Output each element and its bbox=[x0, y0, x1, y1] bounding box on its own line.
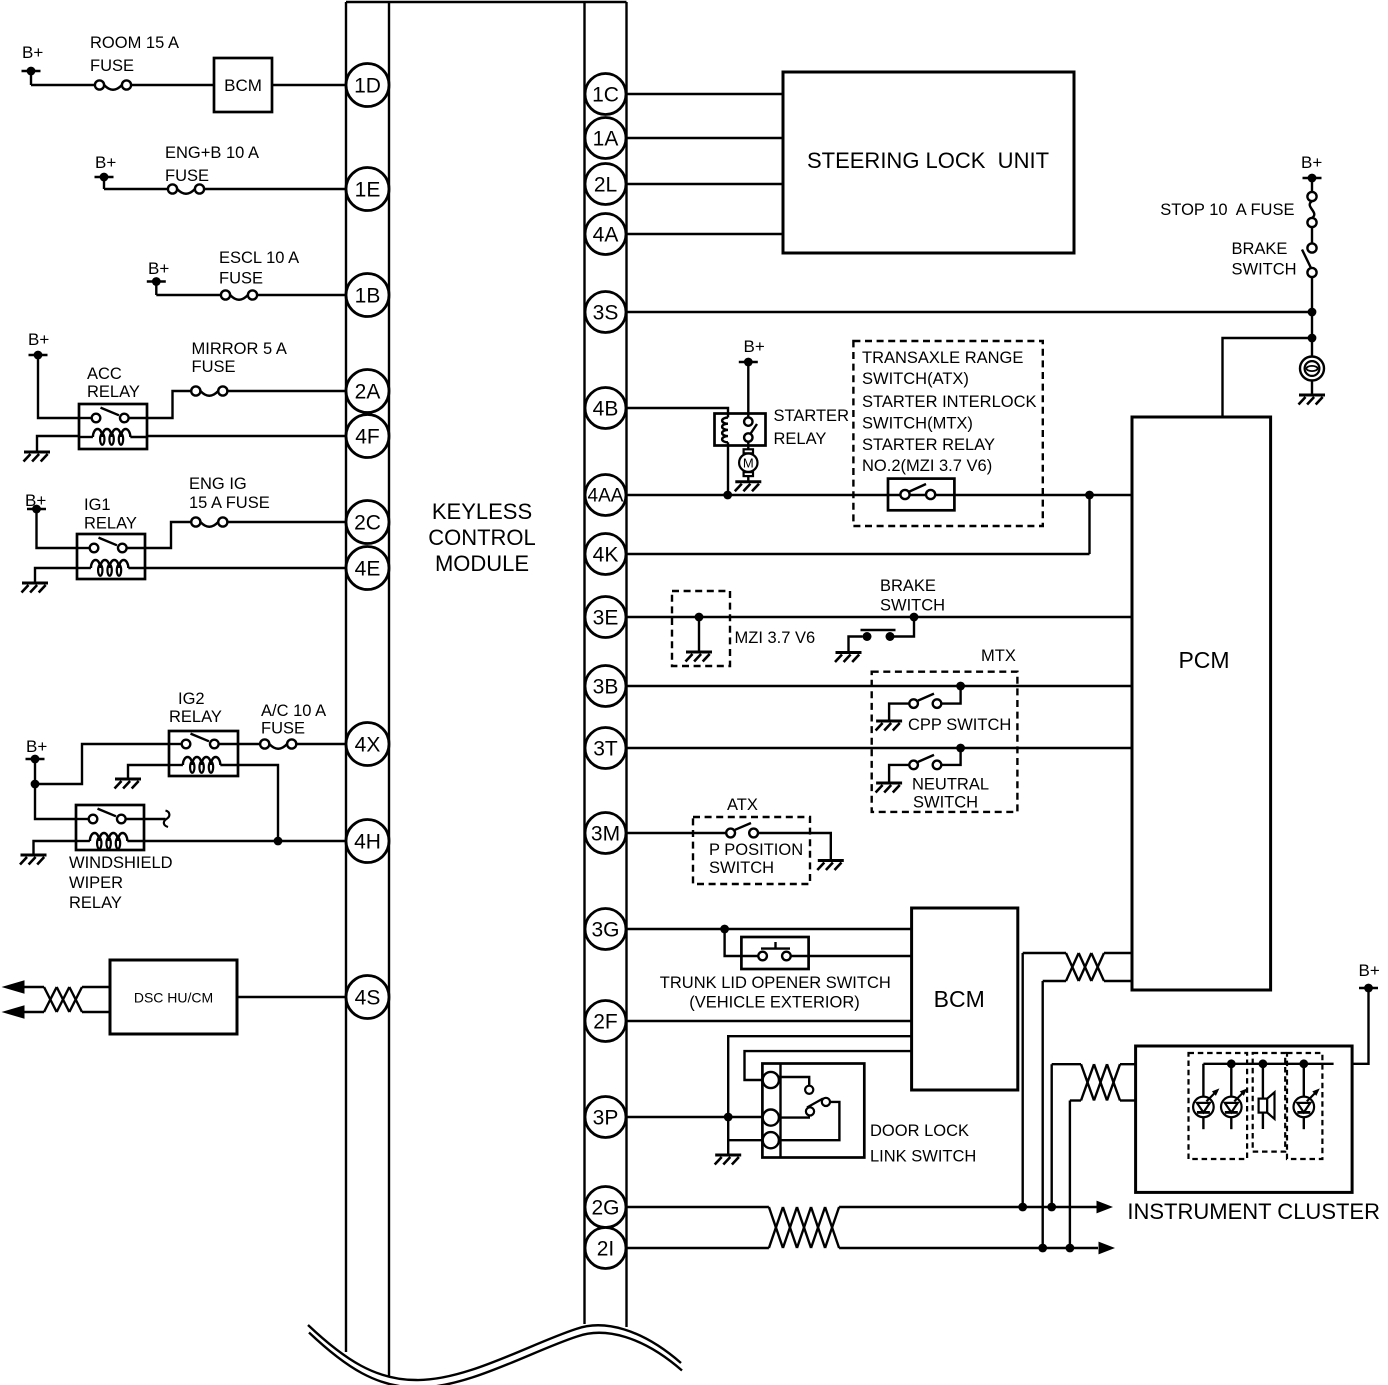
svg-text:SWITCH: SWITCH bbox=[709, 859, 774, 877]
svg-text:2L: 2L bbox=[594, 174, 617, 197]
svg-text:TRUNK LID OPENER SWITCH: TRUNK LID OPENER SWITCH bbox=[660, 974, 891, 992]
svg-text:MODULE: MODULE bbox=[435, 551, 529, 576]
svg-text:ESCL 10 A: ESCL 10 A bbox=[219, 249, 299, 267]
svg-text:SWITCH: SWITCH bbox=[1232, 261, 1297, 279]
svg-text:STARTER RELAY: STARTER RELAY bbox=[862, 436, 995, 454]
svg-text:LINK SWITCH: LINK SWITCH bbox=[870, 1148, 976, 1166]
svg-text:SWITCH(MTX): SWITCH(MTX) bbox=[862, 415, 973, 433]
svg-text:B+: B+ bbox=[22, 43, 43, 62]
svg-text:3M: 3M bbox=[591, 823, 620, 846]
svg-text:B+: B+ bbox=[1301, 153, 1322, 172]
svg-text:4B: 4B bbox=[593, 398, 619, 421]
svg-text:15 A FUSE: 15 A FUSE bbox=[189, 494, 270, 512]
svg-text:3S: 3S bbox=[593, 302, 619, 325]
svg-text:SWITCH: SWITCH bbox=[880, 597, 945, 615]
svg-text:NO.2(MZI 3.7 V6): NO.2(MZI 3.7 V6) bbox=[862, 457, 992, 475]
svg-text:FUSE: FUSE bbox=[219, 270, 263, 288]
svg-text:2I: 2I bbox=[597, 1238, 615, 1261]
svg-text:2F: 2F bbox=[593, 1011, 618, 1034]
svg-text:RELAY: RELAY bbox=[87, 383, 140, 401]
svg-text:B+: B+ bbox=[744, 337, 765, 356]
svg-text:B+: B+ bbox=[25, 491, 46, 510]
svg-text:1A: 1A bbox=[593, 128, 619, 151]
svg-text:A/C 10 A: A/C 10 A bbox=[261, 702, 326, 720]
svg-text:4AA: 4AA bbox=[588, 486, 624, 507]
svg-text:SWITCH: SWITCH bbox=[913, 794, 978, 812]
svg-text:RELAY: RELAY bbox=[774, 430, 827, 448]
svg-text:BRAKE: BRAKE bbox=[1232, 240, 1288, 258]
svg-text:B+: B+ bbox=[95, 153, 116, 172]
svg-text:B+: B+ bbox=[28, 330, 49, 349]
svg-text:M: M bbox=[743, 456, 754, 471]
svg-text:KEYLESS: KEYLESS bbox=[432, 499, 532, 524]
svg-text:RELAY: RELAY bbox=[84, 515, 137, 533]
svg-text:ENG IG: ENG IG bbox=[189, 475, 247, 493]
svg-text:1C: 1C bbox=[592, 84, 619, 107]
svg-text:FUSE: FUSE bbox=[90, 57, 134, 75]
svg-text:CONTROL: CONTROL bbox=[428, 525, 536, 550]
svg-text:PCM: PCM bbox=[1178, 647, 1229, 673]
svg-text:4F: 4F bbox=[355, 426, 380, 449]
svg-text:4A: 4A bbox=[593, 224, 619, 247]
svg-text:(VEHICLE EXTERIOR): (VEHICLE EXTERIOR) bbox=[689, 994, 860, 1012]
svg-text:STEERING LOCK UNIT: STEERING LOCK UNIT bbox=[807, 148, 1049, 173]
svg-text:RELAY: RELAY bbox=[69, 894, 122, 912]
svg-text:FUSE: FUSE bbox=[261, 720, 305, 738]
svg-text:RELAY: RELAY bbox=[169, 708, 222, 726]
svg-text:BCM: BCM bbox=[224, 76, 262, 95]
svg-text:1B: 1B bbox=[355, 285, 381, 308]
svg-text:TRANSAXLE RANGE: TRANSAXLE RANGE bbox=[862, 349, 1023, 367]
svg-text:DOOR LOCK: DOOR LOCK bbox=[870, 1122, 969, 1140]
svg-text:4X: 4X bbox=[355, 734, 381, 757]
svg-text:3B: 3B bbox=[593, 676, 619, 699]
svg-text:2G: 2G bbox=[591, 1197, 619, 1220]
svg-text:BCM: BCM bbox=[934, 986, 985, 1012]
svg-text:3P: 3P bbox=[593, 1107, 619, 1130]
svg-text:STARTER INTERLOCK: STARTER INTERLOCK bbox=[862, 393, 1037, 411]
svg-text:BRAKE: BRAKE bbox=[880, 577, 936, 595]
svg-text:STOP 10 A FUSE: STOP 10 A FUSE bbox=[1160, 201, 1294, 219]
svg-text:3T: 3T bbox=[593, 738, 618, 761]
svg-text:1E: 1E bbox=[355, 179, 381, 202]
svg-text:B+: B+ bbox=[26, 737, 47, 756]
svg-text:WINDSHIELD: WINDSHIELD bbox=[69, 854, 173, 872]
svg-text:ACC: ACC bbox=[87, 365, 122, 383]
svg-text:1D: 1D bbox=[354, 75, 381, 98]
svg-text:ATX: ATX bbox=[727, 796, 758, 814]
svg-text:B+: B+ bbox=[148, 259, 169, 278]
svg-text:2C: 2C bbox=[354, 512, 381, 535]
svg-text:SWITCH(ATX): SWITCH(ATX) bbox=[862, 370, 969, 388]
svg-text:WIPER: WIPER bbox=[69, 874, 123, 892]
svg-text:DSC HU/CM: DSC HU/CM bbox=[134, 990, 213, 1006]
svg-text:IG2: IG2 bbox=[178, 690, 205, 708]
svg-text:4E: 4E bbox=[355, 558, 381, 581]
svg-text:FUSE: FUSE bbox=[192, 358, 236, 376]
svg-text:4K: 4K bbox=[593, 544, 619, 567]
svg-text:MTX: MTX bbox=[981, 647, 1016, 665]
svg-text:4H: 4H bbox=[354, 831, 381, 854]
svg-text:4S: 4S bbox=[355, 987, 381, 1010]
svg-text:MIRROR 5 A: MIRROR 5 A bbox=[192, 340, 287, 358]
svg-text:ROOM 15 A: ROOM 15 A bbox=[90, 34, 179, 52]
svg-text:MZI 3.7 V6: MZI 3.7 V6 bbox=[735, 629, 816, 647]
svg-text:NEUTRAL: NEUTRAL bbox=[912, 776, 989, 794]
svg-text:FUSE: FUSE bbox=[165, 167, 209, 185]
svg-text:3G: 3G bbox=[591, 919, 619, 942]
svg-text:2A: 2A bbox=[355, 381, 381, 404]
svg-text:3E: 3E bbox=[593, 607, 619, 630]
svg-text:IG1: IG1 bbox=[84, 496, 111, 514]
svg-text:ENG+B 10 A: ENG+B 10 A bbox=[165, 144, 259, 162]
svg-text:P POSITION: P POSITION bbox=[709, 841, 803, 859]
svg-text:B+: B+ bbox=[1359, 961, 1380, 980]
svg-text:STARTER: STARTER bbox=[774, 407, 850, 425]
svg-text:CPP SWITCH: CPP SWITCH bbox=[908, 716, 1011, 734]
svg-text:INSTRUMENT CLUSTER: INSTRUMENT CLUSTER bbox=[1127, 1199, 1380, 1224]
